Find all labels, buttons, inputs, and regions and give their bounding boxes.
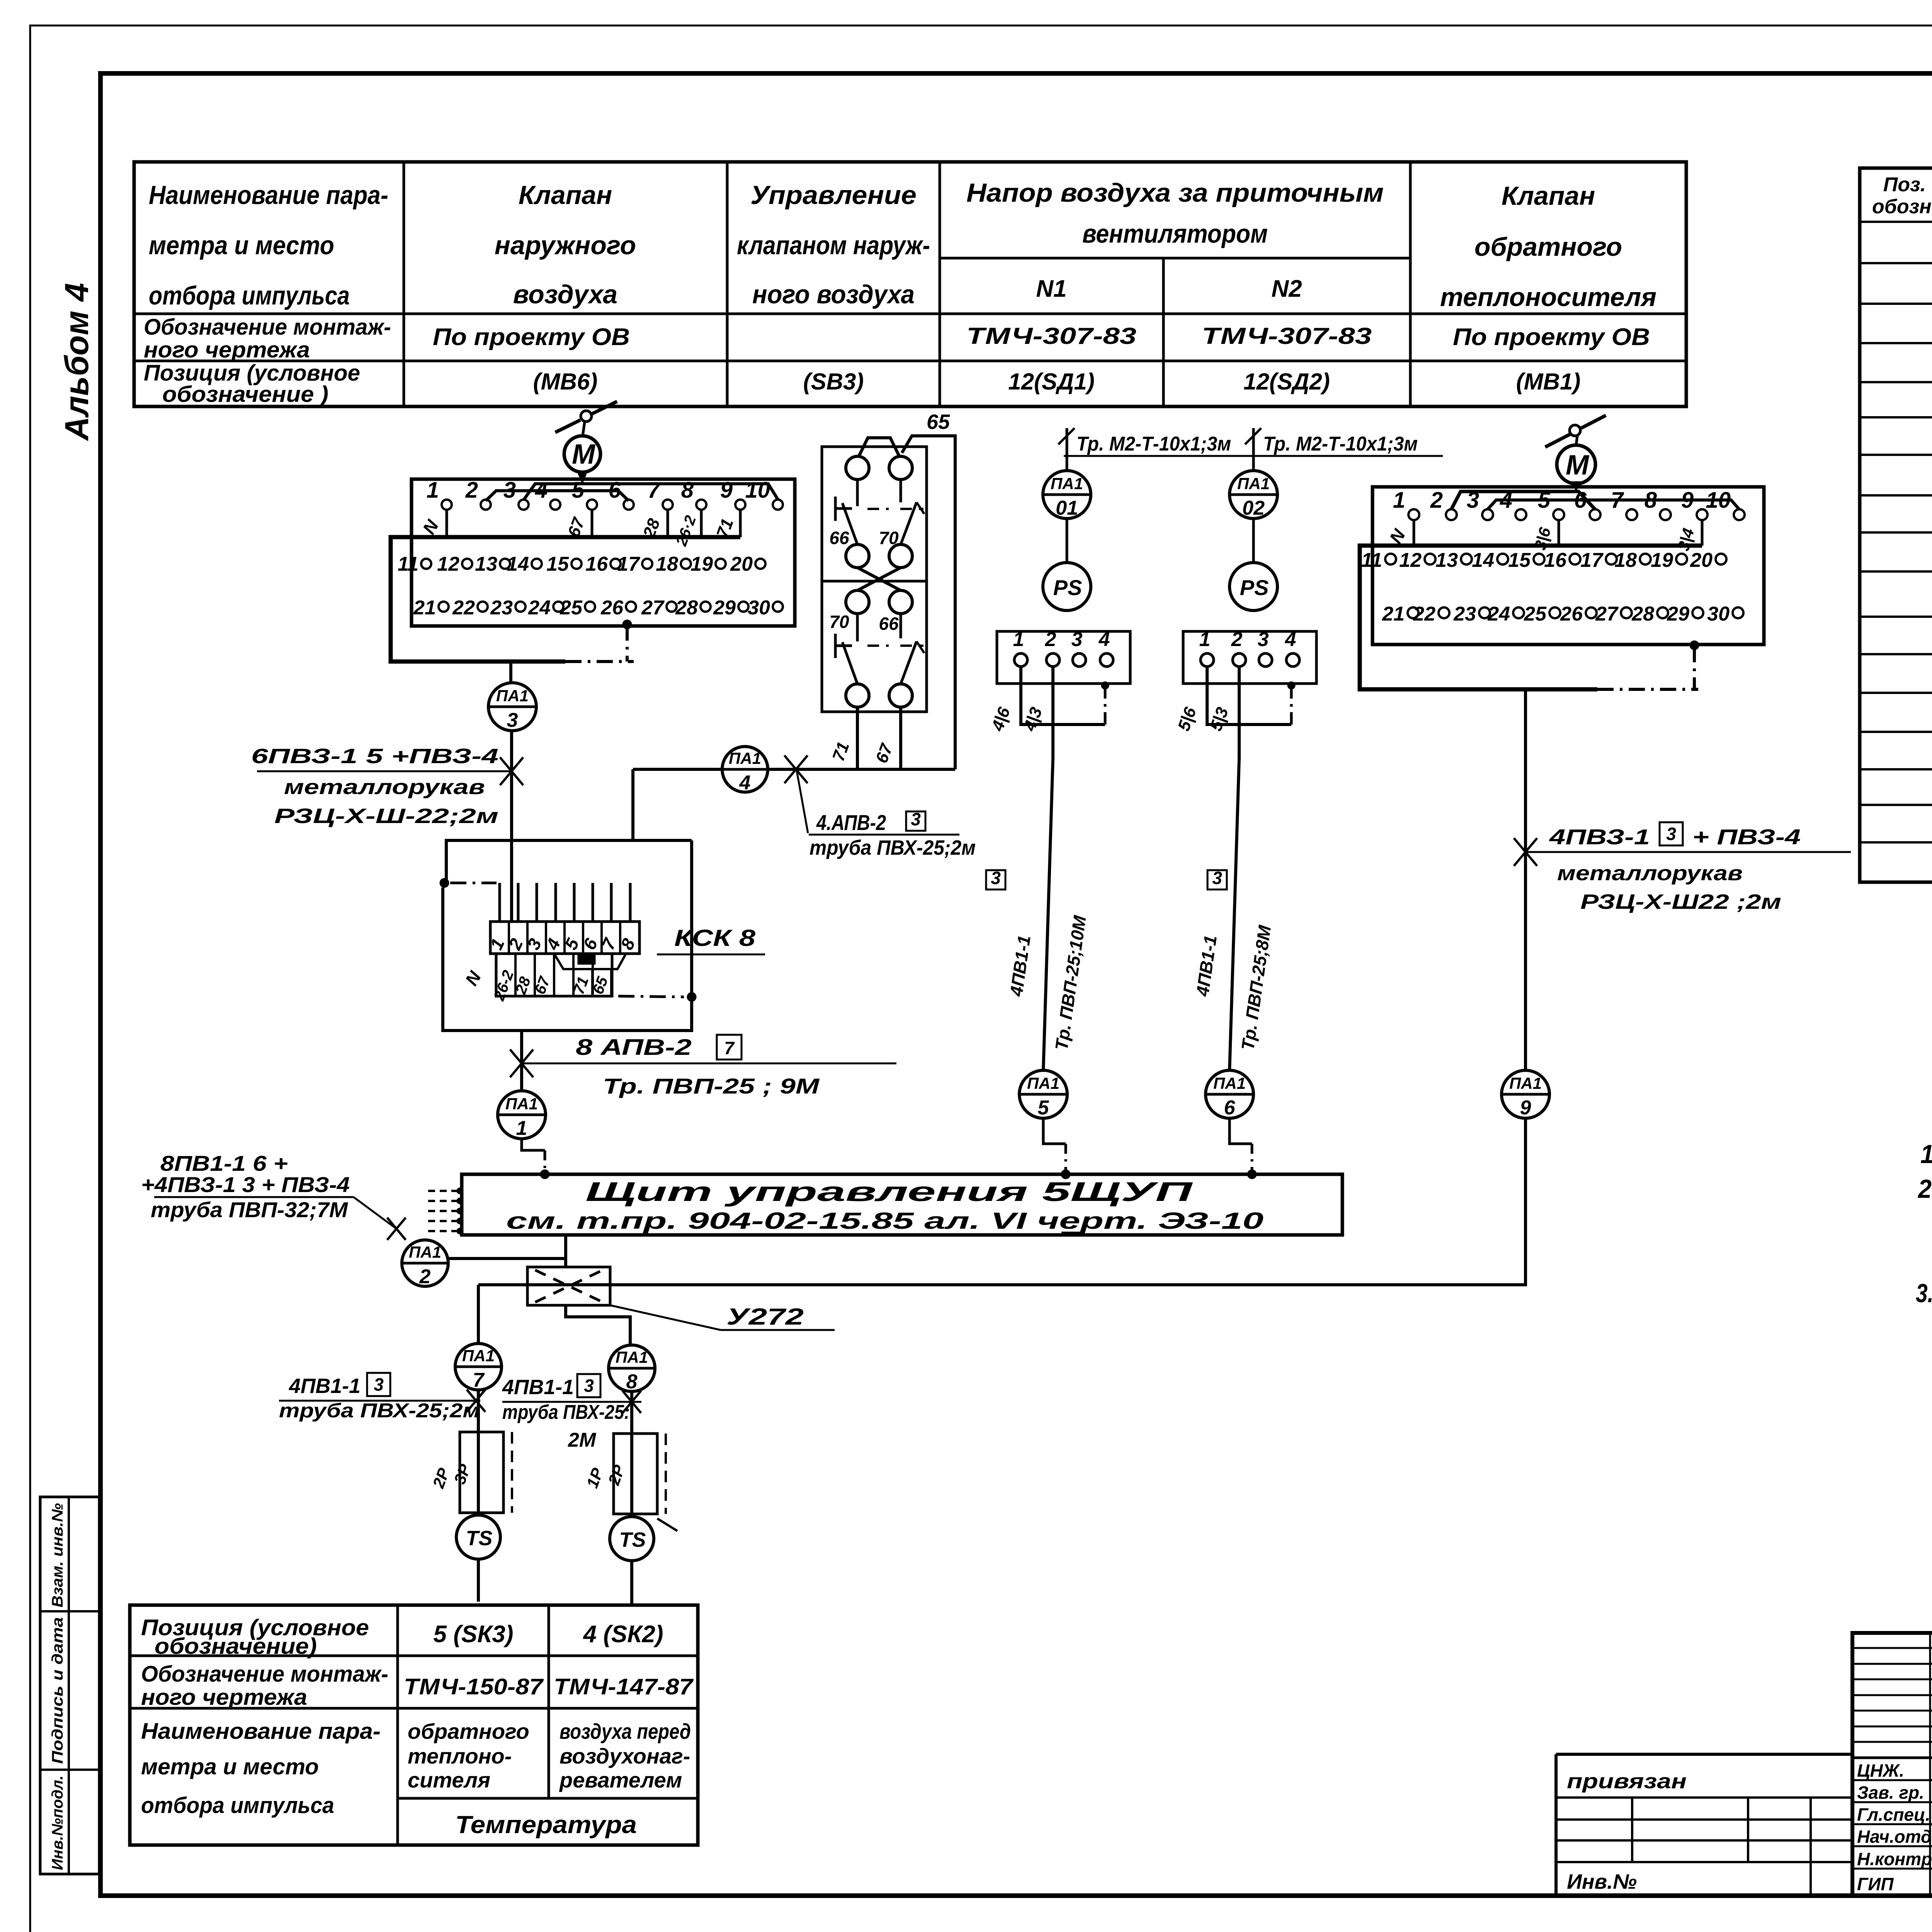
jumper terminals 2-6	[486, 491, 629, 501]
wire PA1/9 down to U272 line	[1524, 1118, 1527, 1285]
svg-text:1: 1	[516, 1117, 527, 1139]
svg-text:4ПВ1-1: 4ПВ1-1	[502, 1376, 574, 1399]
svg-text:15: 15	[1508, 549, 1531, 571]
svg-text:ПА1: ПА1	[1027, 1074, 1060, 1092]
svg-text:2: 2	[1430, 488, 1443, 513]
svg-text:8ПВ1-1 6 +: 8ПВ1-1 6 +	[160, 1151, 288, 1175]
svg-text:6: 6	[1224, 1097, 1236, 1119]
svg-text:ПА1: ПА1	[1213, 1074, 1246, 1092]
svg-text:Гл.спец.: Гл.спец.	[1857, 1804, 1930, 1825]
instrument circle PA1/4	[722, 747, 768, 794]
svg-text:ТS: ТS	[466, 1527, 492, 1550]
svg-text:1: 1	[1199, 628, 1211, 651]
svg-text:обозначение ): обозначение )	[162, 382, 328, 407]
svg-text:21: 21	[413, 597, 436, 619]
svg-text:Тр. М2-Т-10х1;3м: Тр. М2-Т-10х1;3м	[1077, 433, 1231, 455]
svg-text:металлорукав: металлорукав	[1557, 862, 1743, 885]
svg-text:отбора импульса: отбора импульса	[149, 281, 350, 310]
wire PA1/2 to U272	[448, 1257, 566, 1260]
svg-text:29: 29	[713, 597, 736, 619]
pressure switch PS1	[1043, 563, 1091, 611]
svg-text:+ ПВЗ-4: + ПВЗ-4	[1692, 825, 1801, 849]
svg-text:28: 28	[1631, 603, 1654, 625]
svg-text:65: 65	[927, 410, 950, 434]
svg-text:16: 16	[1544, 549, 1567, 571]
svg-text:70: 70	[879, 528, 899, 548]
svg-text:4.АПВ-2: 4.АПВ-2	[816, 810, 886, 835]
wire 67 down	[899, 707, 902, 769]
svg-text:Зав. гр.: Зав. гр.	[1857, 1782, 1924, 1803]
svg-text:19: 19	[1651, 549, 1673, 571]
svg-text:4 (SК2): 4 (SК2)	[583, 1621, 663, 1648]
jumper terminals 2-6	[1451, 492, 1595, 509]
svg-text:28: 28	[675, 597, 698, 619]
svg-text:25: 25	[560, 597, 583, 619]
top-left parameters table	[134, 162, 1686, 406]
svg-text:11: 11	[1361, 549, 1382, 571]
label KCK 8	[657, 954, 765, 956]
motor M1 (valve MB6 drive)	[555, 401, 617, 472]
svg-text:3: 3	[374, 1374, 384, 1395]
svg-text:2. Длины приводов и труб д: 2. Длины приводов и труб даны с учетом 6…	[1917, 1174, 1932, 1204]
dash-dot from terminal 4	[1287, 682, 1295, 689]
svg-text:23: 23	[1453, 603, 1476, 625]
svg-text:4ПВ1-1: 4ПВ1-1	[289, 1374, 361, 1398]
svg-text:8 АПВ-2: 8 АПВ-2	[576, 1035, 692, 1060]
svg-text:Поз.: Поз.	[1883, 173, 1926, 196]
dash-dot to junction	[618, 996, 684, 997]
svg-text:РЗЦ-Х-Ш22 ;2м: РЗЦ-Х-Ш22 ;2м	[1580, 890, 1781, 913]
svg-text:отбора импульса: отбора импульса	[141, 1793, 334, 1818]
svg-text:8: 8	[681, 478, 694, 503]
svg-text:труба ПВП-32;7М: труба ПВП-32;7М	[151, 1197, 348, 1222]
svg-text:19: 19	[690, 553, 713, 575]
svg-text:ПА1: ПА1	[729, 749, 761, 767]
junction node	[440, 878, 449, 888]
svg-text:+4ПВЗ-1 3 + ПВЗ-4: +4ПВЗ-1 3 + ПВЗ-4	[141, 1172, 350, 1197]
svg-text:ПА1: ПА1	[505, 1095, 538, 1113]
svg-text:ТМЧ-147-87: ТМЧ-147-87	[554, 1674, 694, 1699]
svg-text:Подпись и дата: Подпись и дата	[49, 1617, 66, 1764]
svg-text:3: 3	[991, 868, 1001, 888]
svg-text:метра и место: метра и место	[149, 231, 334, 260]
svg-text:3: 3	[1258, 628, 1269, 651]
svg-text:обозн.: обозн.	[1872, 196, 1932, 218]
instrument circle PA1/5	[1019, 1070, 1067, 1119]
svg-text:3: 3	[1212, 868, 1222, 888]
svg-text:Н.контр.: Н.контр.	[1857, 1849, 1932, 1869]
instrument circle PA1/01	[1043, 471, 1091, 519]
svg-text:Температура: Температура	[455, 1811, 637, 1838]
svg-text:М: М	[1566, 450, 1590, 481]
svg-text:1. Позиции приборов указан: 1. Позиции приборов указаны по специфика…	[1920, 1139, 1932, 1169]
terminal row 1-10	[1408, 509, 1419, 520]
dash-dot boundary into comb	[450, 882, 497, 884]
wire down to PA1/7	[477, 1285, 480, 1344]
svg-text:(SВ3): (SВ3)	[803, 369, 864, 395]
svg-text:обозначение): обозначение)	[155, 1634, 317, 1659]
svg-text:Наименование пара-: Наименование пара-	[149, 180, 388, 210]
svg-text:13: 13	[1435, 549, 1458, 571]
stop bracket lower	[834, 634, 837, 658]
wire M2 stem	[1575, 484, 1578, 486]
svg-text:клапаном наруж-: клапаном наруж-	[737, 231, 930, 260]
svg-text:обратного: обратного	[1475, 232, 1622, 262]
multi-wire comb into panel	[428, 1190, 462, 1192]
svg-text:29: 29	[1667, 603, 1689, 625]
svg-text:5 (SК3): 5 (SК3)	[434, 1621, 514, 1648]
instrument circle PA1/6	[1206, 1070, 1253, 1119]
equipment outline thick bus (box 1)	[391, 537, 740, 662]
svg-text:ного чертежа: ного чертежа	[144, 337, 310, 362]
svg-text:Наименование пара-: Наименование пара-	[141, 1719, 381, 1744]
svg-text:20: 20	[1690, 549, 1713, 571]
wire to PA1/4	[633, 768, 955, 771]
instrument circle PA1/2	[402, 1240, 448, 1288]
svg-text:2: 2	[1045, 628, 1056, 651]
svg-text:66: 66	[879, 614, 899, 634]
svg-text:По проекту ОВ: По проекту ОВ	[433, 324, 630, 350]
title block outline	[1852, 1633, 1932, 1896]
svg-text:15: 15	[546, 553, 569, 575]
upper contact pair	[856, 480, 859, 506]
wire PA1/3 down to KCK8	[510, 731, 513, 922]
specification table	[1860, 168, 1932, 882]
instrument circle PA1/3	[488, 683, 536, 731]
svg-text:(МВ6): (МВ6)	[533, 369, 598, 395]
svg-text:14: 14	[1472, 549, 1494, 571]
svg-text:7: 7	[724, 1038, 735, 1058]
equipment outline thick bus (box 2)	[1360, 546, 1702, 689]
impulse tube label column 2	[1252, 428, 1255, 471]
wire 71 to bus	[739, 510, 742, 537]
svg-text:26: 26	[1560, 603, 1583, 625]
svg-text:У272: У272	[726, 1304, 804, 1330]
KCK8 terminal row 1-8	[490, 922, 639, 954]
horizontal bus above KCK8	[446, 840, 692, 883]
svg-text:27: 27	[641, 597, 665, 619]
svg-text:ТМЧ-150-87: ТМЧ-150-87	[404, 1674, 544, 1699]
cable down to PA1	[1051, 665, 1054, 758]
svg-text:N2: N2	[1271, 276, 1302, 302]
svg-text:ного чертежа: ного чертежа	[141, 1685, 307, 1710]
wire 3|6 to bus	[1558, 520, 1560, 546]
svg-text:17: 17	[1580, 549, 1604, 571]
svg-text:Обозначение монтаж-: Обозначение монтаж-	[144, 315, 391, 340]
svg-text:2: 2	[1231, 628, 1243, 651]
svg-text:Клапан: Клапан	[1502, 181, 1595, 211]
KCK8 lower terminal row	[496, 954, 612, 996]
svg-text:Тр. ПВП-25 ; 9М: Тр. ПВП-25 ; 9М	[603, 1074, 820, 1098]
terminal row 11-20	[421, 559, 431, 569]
wire M1 stem	[581, 472, 584, 478]
hood detail	[578, 954, 595, 964]
terminal box 2 (4 terminals)	[997, 631, 1130, 684]
wire PA1/01 to PS	[1066, 519, 1068, 563]
dash-dot from terminal 4	[1101, 682, 1109, 689]
svg-text:4: 4	[739, 772, 751, 794]
wire 67 to bus	[591, 510, 594, 537]
svg-text:4: 4	[1099, 628, 1110, 651]
svg-text:23: 23	[490, 597, 513, 619]
thermo well left	[477, 1391, 480, 1515]
svg-text:сителя: сителя	[408, 1768, 490, 1792]
terminal row 11-20	[1385, 554, 1396, 565]
wire 65	[902, 436, 955, 769]
long wire to PA1/9 riser	[478, 1283, 1519, 1286]
terminal box 2 outline	[1372, 487, 1764, 645]
svg-text:ПА1: ПА1	[1509, 1074, 1542, 1092]
svg-text:3: 3	[584, 1376, 594, 1396]
svg-text:9: 9	[1520, 1097, 1531, 1119]
svg-text:1: 1	[1013, 628, 1024, 651]
stop bracket	[834, 497, 837, 521]
svg-text:ревателем: ревателем	[559, 1768, 682, 1792]
svg-text:обратного: обратного	[408, 1719, 529, 1743]
jumper bridge top	[859, 438, 900, 457]
wire panel to U272	[564, 1235, 567, 1268]
svg-text:22: 22	[1413, 603, 1435, 625]
impulse tube label column 1	[1066, 428, 1068, 471]
svg-text:66: 66	[829, 528, 849, 548]
svg-text:N1: N1	[1036, 276, 1066, 302]
terminal row 1-10	[442, 500, 452, 510]
terminal box 3 (4 terminals)	[1183, 631, 1316, 684]
instrument circle PA1/02	[1230, 471, 1277, 519]
svg-text:3: 3	[911, 809, 921, 829]
wire 28 to bus	[667, 510, 669, 537]
svg-text:14: 14	[507, 553, 529, 575]
wire 3|4 to bus	[1701, 520, 1704, 546]
svg-text:16: 16	[585, 553, 608, 575]
lower contact pair	[856, 614, 859, 641]
svg-text:ПА1: ПА1	[616, 1348, 648, 1366]
svg-text:7: 7	[648, 478, 661, 503]
svg-text:ПА1: ПА1	[1051, 474, 1083, 493]
wire PA1/02 to PS	[1252, 519, 1255, 563]
svg-text:2: 2	[419, 1265, 431, 1288]
dash-dot equipment boundary bottom	[565, 660, 634, 663]
svg-text:метра и место: метра и место	[141, 1754, 319, 1779]
svg-text:02: 02	[1242, 497, 1265, 519]
junction box U272	[527, 1267, 610, 1305]
svg-text:труба ПВХ-25:: труба ПВХ-25:	[502, 1401, 630, 1423]
svg-text:ПА1: ПА1	[462, 1347, 495, 1365]
svg-text:25: 25	[1524, 603, 1547, 625]
wire from box to PA1/3	[509, 662, 512, 683]
svg-text:По проекту ОВ: По проекту ОВ	[1453, 324, 1650, 350]
svg-text:70: 70	[829, 612, 849, 632]
svg-text:Инв.№подл.: Инв.№подл.	[49, 1776, 66, 1870]
contact circles	[846, 456, 869, 480]
svg-text:см. т.пр. 904-02-15.85 ал.: см. т.пр. 904-02-15.85 ал. VI черт. ЭЗ-1…	[506, 1208, 1264, 1234]
leader and label U272	[610, 1305, 721, 1330]
svg-text:ТS: ТS	[619, 1528, 646, 1551]
svg-text:18: 18	[1614, 549, 1637, 571]
svg-text:30: 30	[748, 597, 770, 619]
wire 71 down	[856, 707, 859, 769]
KCK8 enclosure outline	[443, 840, 692, 1031]
svg-text:труба ПВХ-25;2м: труба ПВХ-25;2м	[279, 1400, 480, 1422]
svg-text:воздуха: воздуха	[513, 280, 617, 309]
svg-text:27: 27	[1595, 603, 1619, 625]
svg-text:ПА1: ПА1	[496, 687, 529, 705]
svg-text:6ПВЗ-1 5 +ПВЗ-4: 6ПВЗ-1 5 +ПВЗ-4	[251, 745, 498, 768]
svg-text:Альбом 4: Альбом 4	[58, 283, 95, 441]
svg-text:24: 24	[528, 597, 551, 619]
svg-text:22: 22	[452, 597, 475, 619]
svg-text:Тр. М2-Т-10х1;3м: Тр. М2-Т-10х1;3м	[1263, 433, 1418, 455]
svg-text:8: 8	[626, 1371, 638, 1393]
svg-text:Взам. инв.№: Взам. инв.№	[49, 1503, 66, 1607]
svg-text:21: 21	[1382, 603, 1405, 625]
control panel box	[462, 1174, 1342, 1235]
svg-text:2: 2	[465, 478, 478, 503]
svg-text:1: 1	[427, 478, 439, 503]
thermo well right	[630, 1391, 633, 1517]
riser wire to PA1/9	[1524, 689, 1527, 1070]
wire 26-2 to bus	[700, 510, 703, 537]
svg-text:ТМЧ-307-83: ТМЧ-307-83	[966, 323, 1136, 349]
svg-text:3: 3	[1666, 824, 1676, 844]
svg-text:3: 3	[1071, 628, 1083, 651]
svg-text:7: 7	[473, 1369, 485, 1391]
svg-text:Щит управления 5ЩУП: Щит управления 5ЩУП	[585, 1177, 1193, 1207]
svg-text:Напор воздуха за приточным: Напор воздуха за приточным	[966, 178, 1384, 207]
limit switch block outline	[822, 447, 927, 712]
svg-text:9: 9	[720, 478, 733, 503]
svg-text:24: 24	[1487, 603, 1510, 625]
svg-text:12: 12	[437, 553, 459, 575]
instrument circle PA1/9	[1502, 1070, 1549, 1119]
wire terminal 1 loop	[1021, 665, 1105, 724]
wire below TS1	[477, 1559, 480, 1602]
temperature sensor TS1	[456, 1515, 500, 1559]
svg-text:наружного: наружного	[495, 231, 636, 260]
svg-text:привязан: привязан	[1567, 1770, 1687, 1793]
svg-text:Клапан: Клапан	[519, 180, 612, 210]
jumper terminals 3-10	[524, 484, 778, 500]
pressure switch PS2	[1230, 563, 1277, 611]
svg-text:(МВ1): (МВ1)	[1516, 369, 1581, 395]
svg-text:3: 3	[507, 709, 518, 731]
svg-text:ЦНЖ.: ЦНЖ.	[1857, 1760, 1904, 1781]
svg-text:18: 18	[656, 553, 678, 575]
dash-dot boundary	[1597, 688, 1698, 691]
svg-text:12(SД1): 12(SД1)	[1008, 369, 1094, 395]
svg-text:PS: PS	[1053, 575, 1082, 600]
wire into control panel	[1230, 1118, 1252, 1144]
wire N to bus	[446, 510, 448, 537]
svg-text:4: 4	[1285, 628, 1296, 651]
wire bus to PA1/4 riser	[631, 769, 634, 840]
cable down to PA1	[1238, 665, 1241, 758]
crossover wires	[857, 568, 901, 590]
svg-text:2М: 2М	[568, 1429, 597, 1451]
svg-text:металлорукав: металлорукав	[284, 776, 485, 799]
svg-text:КСК 8: КСК 8	[674, 925, 756, 951]
junction node on box bottom	[622, 620, 632, 629]
svg-text:ТМЧ-307-83: ТМЧ-307-83	[1202, 323, 1372, 349]
svg-text:12: 12	[1399, 549, 1422, 571]
svg-text:М: М	[572, 439, 596, 470]
svg-text:Нач.отд.: Нач.отд.	[1857, 1827, 1932, 1847]
svg-text:ПА1: ПА1	[409, 1243, 441, 1261]
leader to cable label	[797, 771, 808, 833]
svg-text:12(SД2): 12(SД2)	[1243, 369, 1330, 395]
wire KCK8 to PA1/1	[520, 1031, 523, 1091]
svg-text:воздуха перед: воздуха перед	[560, 1719, 691, 1743]
bottom-left positions table	[130, 1605, 698, 1845]
svg-text:PS: PS	[1240, 575, 1269, 600]
svg-text:Инв.№: Инв.№	[1567, 1870, 1637, 1893]
terminal row 21-30	[1408, 607, 1418, 618]
svg-text:11: 11	[398, 553, 418, 575]
svg-text:30: 30	[1707, 603, 1730, 625]
svg-text:20: 20	[730, 553, 753, 575]
svg-text:ного воздуха: ного воздуха	[752, 280, 915, 309]
wire into control panel	[1043, 1118, 1066, 1144]
instrument circle PA1/1	[498, 1091, 546, 1139]
wire terminal 1 loop	[1207, 665, 1291, 724]
terminal box 1 outline	[412, 479, 795, 626]
svg-text:17: 17	[617, 553, 640, 575]
wire U272 to PA1/8	[566, 1305, 630, 1345]
svg-text:10: 10	[745, 478, 770, 503]
svg-text:вентилятором: вентилятором	[1082, 219, 1268, 248]
svg-text:3. Монтаж защитного занулени: 3. Монтаж защитного зануления выполнить …	[1916, 1279, 1932, 1308]
comb of 8 wires into KCK8	[498, 883, 501, 922]
svg-text:1: 1	[1393, 488, 1405, 513]
svg-text:01: 01	[1056, 497, 1078, 519]
temperature sensor TS2	[610, 1517, 654, 1561]
wire N to bus	[1413, 520, 1415, 546]
left margin stamp strip	[40, 1497, 99, 1874]
svg-text:теплоносителя: теплоносителя	[1440, 282, 1656, 312]
svg-text:26: 26	[600, 597, 624, 619]
svg-text:5: 5	[1038, 1097, 1049, 1119]
svg-text:труба ПВХ-25;2м: труба ПВХ-25;2м	[810, 836, 976, 859]
attachment table left of title block	[1556, 1753, 1852, 1756]
svg-text:4ПВЗ-1: 4ПВЗ-1	[1549, 825, 1650, 849]
svg-text:РЗЦ-Х-Ш-22;2м: РЗЦ-Х-Ш-22;2м	[274, 804, 498, 828]
wire PA1/1 to control panel	[522, 1139, 545, 1150]
svg-text:теплоно-: теплоно-	[408, 1744, 512, 1768]
wire below TS2	[630, 1561, 633, 1604]
motor M2 (valve MB1 drive)	[1545, 415, 1606, 484]
junction node	[687, 992, 696, 1002]
terminal row 21-30	[439, 602, 449, 612]
svg-text:воздухонаг-: воздухонаг-	[560, 1744, 690, 1768]
instrument circle PA1/7	[455, 1344, 502, 1391]
instrument circle PA1/8	[609, 1345, 655, 1393]
svg-text:13: 13	[475, 553, 497, 575]
svg-text:ПА1: ПА1	[1237, 474, 1270, 493]
svg-text:ГИП: ГИП	[1857, 1874, 1894, 1894]
svg-text:Управление: Управление	[750, 180, 917, 210]
jumper terminals 3-10	[1488, 500, 1739, 509]
svg-text:Обозначение монтаж-: Обозначение монтаж-	[141, 1662, 388, 1687]
